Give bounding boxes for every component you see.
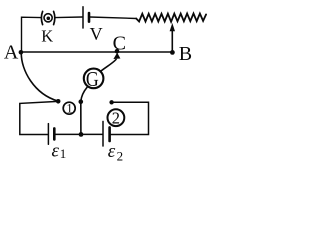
svg-text:1: 1 (66, 102, 72, 116)
cell e2: long plate, short thick plate (103, 121, 110, 146)
junction dot (end of curve from A) (56, 99, 61, 104)
label e2 (108, 141, 123, 163)
svg-text:2: 2 (117, 148, 124, 163)
svg-text:C: C (113, 32, 126, 54)
svg-text:B: B (179, 43, 192, 65)
wire A-B (21, 51, 173, 53)
terminal dot (right loop, open end) (109, 100, 113, 104)
svg-text:G: G (86, 69, 99, 92)
node C (dot + label) (113, 32, 126, 54)
galvanometer G (84, 69, 104, 92)
svg-text:2: 2 (112, 108, 120, 127)
svg-text:1: 1 (60, 146, 67, 161)
wire: G to C with arrowhead (101, 53, 121, 72)
junction dot on bottom wire (79, 132, 84, 137)
cell e1: long plate, short thick plate (48, 124, 54, 145)
loop label 2 (circled 2) (108, 108, 125, 127)
wire: G down to galvanometer-branch dot (81, 87, 87, 101)
wire: top-left corner from A up and right to key K (22, 17, 42, 52)
wire: curve from A down to junction dot (21, 53, 58, 101)
wire: key K to battery V (55, 16, 82, 19)
svg-text:V: V (90, 24, 103, 44)
wire: right loop (bottom from e2, right side, top to terminal dot) (110, 102, 148, 134)
wiper arrow from node B up to rheostat (170, 23, 175, 52)
galvanometer-branch dot (79, 99, 84, 104)
loop label 1 (circled 1) (63, 102, 75, 116)
node A (dot + label) (4, 42, 23, 64)
svg-text:K: K (41, 27, 53, 46)
svg-text:ε: ε (108, 141, 116, 162)
plug key K (41, 11, 55, 45)
wire: bottom wire from e1 to e2 through junction (55, 133, 102, 135)
label e1 (52, 140, 67, 161)
wire: vertical galvanometer branch down to bottom wire (80, 102, 82, 135)
wire: left loop (top, left, bottom to cell e1) (20, 101, 58, 134)
svg-text:A: A (4, 42, 19, 64)
svg-text:ε: ε (52, 140, 60, 161)
rheostat (zigzag resistor) (136, 14, 206, 22)
node B (dot + label) (170, 43, 192, 65)
battery V (cell): long plate, short thick plate, label V (83, 7, 103, 44)
wire: battery V to rheostat (90, 17, 136, 19)
